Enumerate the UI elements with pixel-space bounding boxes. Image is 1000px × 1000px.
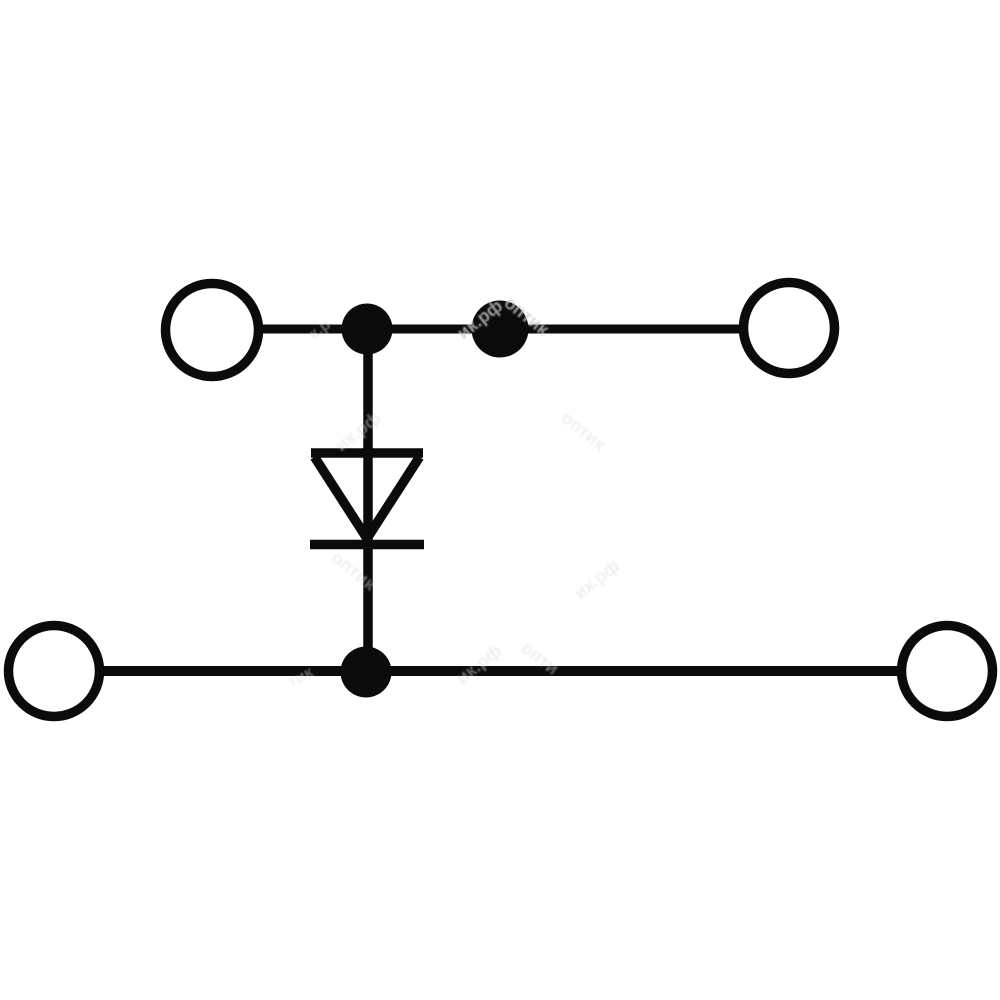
wire: vertical branch through diode xyxy=(363,329,373,671)
terminal circle (top left) xyxy=(166,284,259,377)
junction node (bottom, at branch) xyxy=(341,647,392,698)
junction node (top bus, mid) xyxy=(472,301,529,358)
junction node (top, at branch) xyxy=(342,304,393,355)
watermark text over mid junction xyxy=(286,292,624,691)
terminal circle (bottom left) xyxy=(9,626,100,717)
diode V1 triangle right side xyxy=(366,457,420,540)
terminal circle (top right) xyxy=(744,283,835,374)
wire: top horizontal bus xyxy=(260,325,741,334)
terminal circle (bottom right) xyxy=(902,626,993,717)
diode V1 triangle anode bar xyxy=(311,448,423,458)
wire: bottom horizontal bus xyxy=(102,666,899,676)
diode V1 cathode bar xyxy=(310,540,424,550)
diode V1 triangle left side xyxy=(315,457,369,540)
